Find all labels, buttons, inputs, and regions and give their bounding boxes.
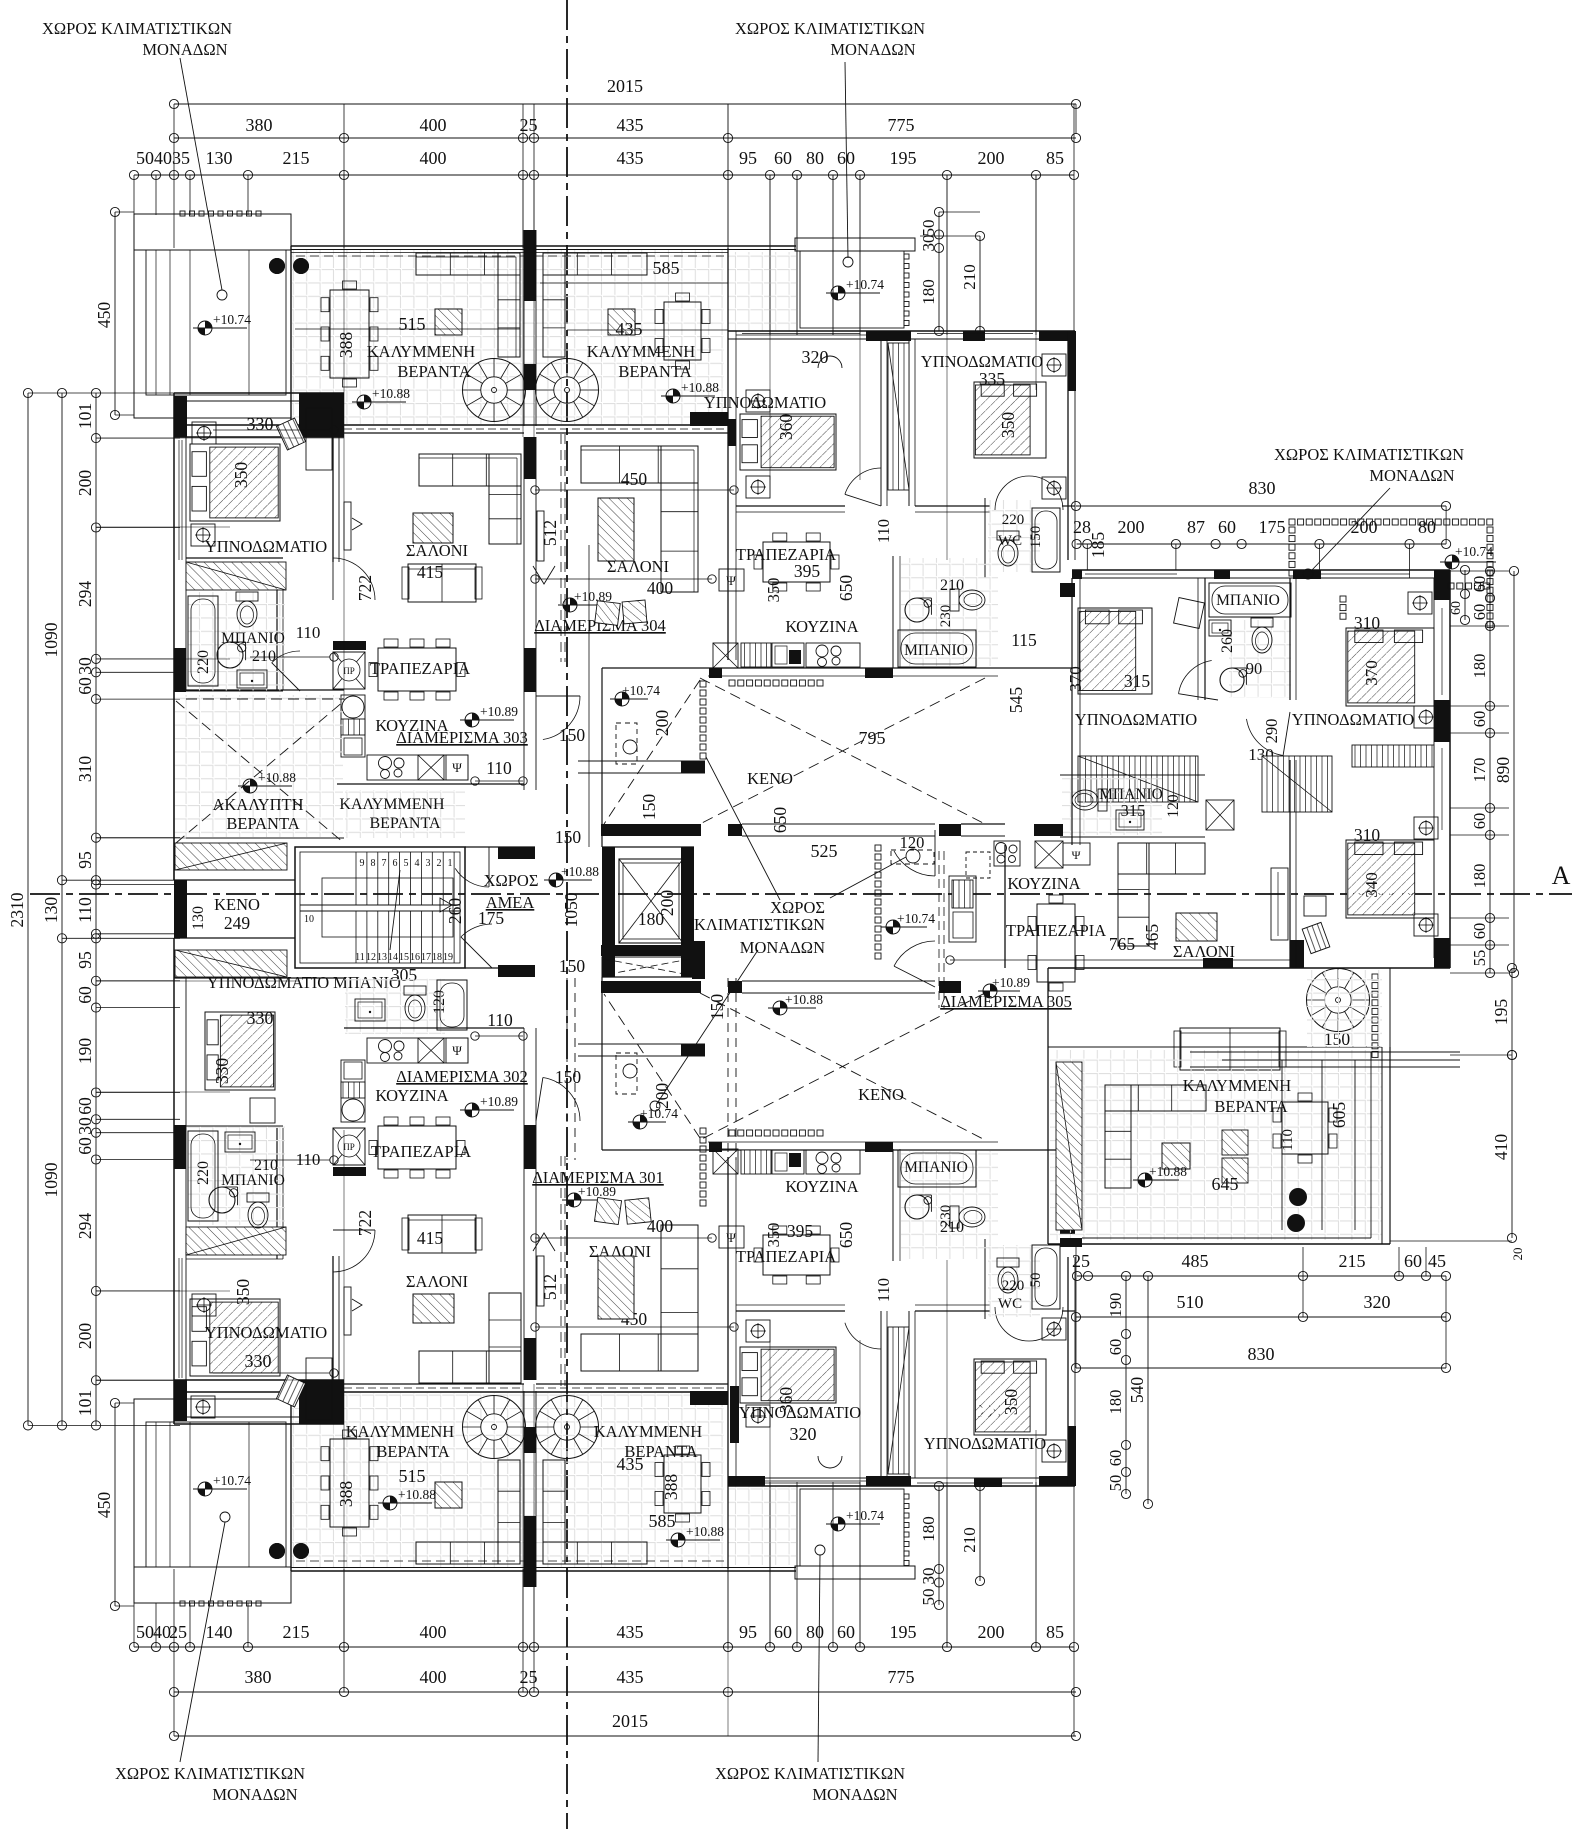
svg-text:110: 110 [486, 758, 512, 778]
AC dotted rect top-right [1289, 519, 1295, 525]
apt303 kitchen counter row [367, 755, 468, 780]
apt303 bedroom door [333, 558, 375, 600]
svg-text:2310: 2310 [7, 892, 27, 927]
svg-text:101: 101 [75, 403, 95, 429]
bottom veranda tiles [292, 1393, 724, 1567]
svg-text:30: 30 [75, 1117, 95, 1135]
svg-text:+10.88: +10.88 [686, 1524, 724, 1539]
svg-text:+10.89: +10.89 [480, 1094, 518, 1109]
svg-text:395: 395 [787, 1221, 814, 1241]
svg-text:ΥΠΝΟΔΩΜΑΤΙΟ: ΥΠΝΟΔΩΜΑΤΙΟ [704, 393, 826, 412]
elevator lobby walls [601, 668, 603, 847]
svg-text:350: 350 [998, 412, 1018, 439]
apt302 left wall window lines [178, 1258, 180, 1378]
svg-text:ΤΡΑΠΕΖΑΡΙΑ: ΤΡΑΠΕΖΑΡΙΑ [736, 1247, 836, 1266]
svg-text:35: 35 [172, 148, 190, 168]
apt302 top boundary (stair hatch) [174, 977, 344, 979]
svg-text:370: 370 [1362, 660, 1381, 686]
svg-text:210: 210 [254, 1157, 278, 1174]
keno left box [174, 880, 187, 938]
svg-text:ΚΑΛΥΜΜΕΝΗ: ΚΑΛΥΜΜΕΝΗ [346, 1422, 455, 1441]
apt303 saloni/hall wall [523, 437, 525, 790]
svg-text:200: 200 [978, 1622, 1005, 1642]
leader AC top-right [845, 62, 848, 258]
svg-text:605: 605 [1329, 1102, 1349, 1129]
svg-text:60: 60 [1470, 711, 1489, 728]
apt301 bedroom walls + wardrobe strip [880, 1311, 882, 1478]
svg-text:101: 101 [75, 1390, 95, 1416]
AC platform bottom-center [795, 1566, 915, 1579]
svg-text:Ψ: Ψ [726, 573, 736, 588]
wing kitchen/living boundary [1004, 845, 1006, 968]
svg-text:512: 512 [540, 520, 560, 546]
stairwell box [295, 847, 465, 968]
middle corridor door [894, 851, 935, 876]
svg-text:ΠΡ: ΠΡ [343, 666, 355, 676]
svg-text:ΥΠΝΟΔΩΜΑΤΙΟ: ΥΠΝΟΔΩΜΑΤΙΟ [739, 1403, 861, 1422]
svg-text:+10.74: +10.74 [1455, 544, 1493, 559]
svg-text:ΣΑΛΟΝΙ: ΣΑΛΟΝΙ [1173, 942, 1235, 961]
svg-text:85: 85 [1046, 1622, 1064, 1642]
apt302 bedroom2/bath wall [186, 1253, 283, 1255]
right edge extra chain [1464, 570, 1466, 620]
svg-text:30: 30 [919, 235, 938, 252]
svg-text:200: 200 [75, 470, 95, 497]
black dots top-left [269, 258, 285, 274]
top veranda inner dashed overhang [296, 255, 724, 257]
svg-text:380: 380 [245, 1667, 272, 1687]
svg-text:12: 12 [366, 952, 376, 963]
svg-text:150: 150 [559, 956, 586, 976]
wing dining [1037, 904, 1075, 982]
svg-text:ΧΩΡΟΣ ΚΛΙΜΑΤΙΣΤΙΚΩΝ: ΧΩΡΟΣ ΚΛΙΜΑΤΙΣΤΙΚΩΝ [115, 1764, 305, 1783]
wing veranda sofa big [1105, 1085, 1206, 1111]
hatch strip above stairs [175, 843, 287, 870]
AC platform bottom-left [134, 1399, 291, 1603]
svg-text:Ψ: Ψ [726, 1230, 736, 1245]
svg-text:150: 150 [555, 827, 582, 847]
svg-text:1090: 1090 [41, 622, 61, 657]
lower keno dashes vertical [727, 978, 729, 1160]
svg-text:ΧΩΡΟΣ ΚΛΙΜΑΤΙΣΤΙΚΩΝ: ΧΩΡΟΣ ΚΛΙΜΑΤΙΣΤΙΚΩΝ [735, 19, 925, 38]
svg-text:+10.88: +10.88 [398, 1487, 436, 1502]
svg-text:2: 2 [437, 858, 442, 869]
svg-text:515: 515 [399, 1466, 426, 1486]
svg-text:60: 60 [1106, 1450, 1125, 1467]
svg-text:ΣΑΛΟΝΙ: ΣΑΛΟΝΙ [406, 1272, 468, 1291]
svg-text:330: 330 [212, 1058, 232, 1085]
stair right wall chunks [498, 847, 535, 859]
svg-text:Α: Α [1552, 861, 1571, 890]
svg-text:220: 220 [195, 1161, 212, 1185]
apt301 kitchen [719, 1226, 744, 1248]
svg-text:180: 180 [1470, 864, 1489, 889]
wing veranda dots [1289, 1188, 1307, 1206]
svg-text:388: 388 [336, 332, 356, 359]
svg-text:ΔΙΑΜΕΡΙΣΜΑ 302: ΔΙΑΜΕΡΙΣΜΑ 302 [396, 1067, 528, 1086]
svg-text:150: 150 [559, 725, 586, 745]
svg-text:60: 60 [1470, 813, 1489, 830]
apt301 right wall [1067, 1257, 1069, 1486]
black dots redrawn over tiles [269, 258, 285, 274]
top veranda 2 dining table [664, 302, 701, 360]
svg-text:150: 150 [1028, 526, 1044, 549]
corridor partition below elevator [578, 1043, 705, 1045]
apt301 lightwell details [616, 1053, 637, 1094]
svg-text:+10.74: +10.74 [213, 312, 251, 327]
svg-text:ΧΩΡΟΣ ΚΛΙΜΑΤΙΣΤΙΚΩΝ: ΧΩΡΟΣ ΚΛΙΜΑΤΙΣΤΙΚΩΝ [42, 19, 232, 38]
top veranda small table [435, 309, 462, 335]
black chunks on veranda boundary [299, 393, 344, 437]
svg-text:388: 388 [336, 1481, 356, 1508]
apt303 bedroom right wall [332, 437, 334, 562]
svg-text:9: 9 [360, 858, 365, 869]
330 dim lines bedroom [213, 429, 330, 431]
apt303 desk + chair [306, 408, 332, 470]
svg-text:87: 87 [1187, 517, 1205, 537]
svg-text:140: 140 [206, 1622, 233, 1642]
apt304 arc top [818, 356, 842, 368]
svg-text:195: 195 [890, 148, 917, 168]
level +10.74 bottom-center [831, 1517, 845, 1531]
svg-text:180: 180 [919, 279, 938, 305]
svg-text:45: 45 [1428, 1251, 1446, 1271]
apt303 kalymmeni veranda small [345, 790, 465, 838]
svg-text:ΚΕΝΟ: ΚΕΝΟ [214, 895, 260, 914]
top extension lines [173, 104, 175, 248]
svg-text:230: 230 [938, 605, 954, 628]
top veranda tiles [292, 250, 724, 424]
svg-text:ΚΛΙΜΑΤΙΣΤΙΚΩΝ: ΚΛΙΜΑΤΙΣΤΙΚΩΝ [694, 915, 825, 934]
svg-text:1: 1 [448, 858, 453, 869]
svg-text:+10.88: +10.88 [258, 770, 296, 785]
svg-text:360: 360 [776, 1387, 796, 1414]
svg-text:60: 60 [75, 677, 95, 695]
svg-text:60: 60 [1449, 601, 1464, 615]
svg-text:ΜΠΑΝΙΟ: ΜΠΑΝΙΟ [904, 642, 968, 659]
apt302 trapezaria [378, 1126, 456, 1169]
svg-text:ΜΟΝΑΔΩΝ: ΜΟΝΑΔΩΝ [740, 938, 825, 957]
svg-text:330: 330 [245, 1351, 272, 1371]
svg-text:ΤΡΑΠΕΖΑΡΙΑ: ΤΡΑΠΕΖΑΡΙΑ [371, 1142, 471, 1161]
leader AC bottom-center [818, 1555, 820, 1762]
svg-text:60: 60 [1470, 923, 1489, 940]
horizontal grid partial [96, 437, 344, 439]
svg-text:290: 290 [1262, 719, 1281, 744]
svg-text:40: 40 [154, 148, 172, 168]
svg-text:200: 200 [657, 890, 677, 917]
svg-text:ΒΕΡΑΝΤΑ: ΒΕΡΑΝΤΑ [1214, 1097, 1287, 1116]
svg-text:60: 60 [1404, 1251, 1422, 1271]
bottom veranda fascia [291, 1570, 796, 1572]
elevator bottom band + dashed shaft [601, 945, 705, 956]
svg-text:415: 415 [417, 562, 444, 582]
leader line AC top-left [180, 58, 222, 290]
svg-text:220: 220 [1002, 512, 1025, 528]
amea doors [455, 868, 489, 887]
apt304 tv bar [537, 511, 544, 561]
svg-text:585: 585 [653, 258, 680, 278]
svg-text:350: 350 [1001, 1389, 1021, 1416]
bottom veranda sofa L [416, 1542, 520, 1564]
svg-text:388: 388 [661, 1474, 681, 1501]
stair mid landing rail [300, 904, 460, 906]
svg-text:ΚΑΛΥΜΜΕΝΗ: ΚΑΛΥΜΜΕΝΗ [339, 796, 445, 813]
level +10.74 top-right [831, 286, 845, 300]
svg-text:ΔΙΑΜΕΡΙΣΜΑ 303: ΔΙΑΜΕΡΙΣΜΑ 303 [396, 728, 528, 747]
svg-text:585: 585 [649, 1511, 676, 1531]
svg-text:ΥΠΝΟΔΩΜΑΤΙΟ: ΥΠΝΟΔΩΜΑΤΙΟ [205, 537, 327, 556]
svg-text:ΚΕΝΟ: ΚΕΝΟ [747, 769, 793, 788]
apt303 nightstands [192, 422, 216, 444]
svg-text:Ψ: Ψ [452, 760, 462, 775]
wing bath2 [1060, 774, 1205, 776]
apt301 wc [984, 1239, 986, 1319]
right wing top chain 830 [1076, 505, 1446, 507]
svg-text:ΚΟΥΖΙΝΑ: ΚΟΥΖΙΝΑ [1007, 874, 1080, 893]
svg-text:ΒΕΡΑΝΤΑ: ΒΕΡΑΝΤΑ [624, 1442, 697, 1461]
svg-text:ΜΟΝΑΔΩΝ: ΜΟΝΑΔΩΝ [812, 1785, 897, 1804]
svg-text:315: 315 [1121, 801, 1146, 820]
svg-text:435: 435 [617, 1622, 644, 1642]
svg-text:650: 650 [836, 575, 856, 602]
apt304 bath [892, 556, 894, 668]
apt302 bedroom1 [185, 978, 187, 1128]
svg-text:775: 775 [888, 1667, 915, 1687]
wing bath middle [1209, 583, 1291, 617]
svg-text:+10.74: +10.74 [213, 1473, 251, 1488]
svg-text:110: 110 [296, 623, 321, 642]
right wing bottom chains [1077, 1275, 1446, 1277]
svg-text:ΒΕΡΑΝΤΑ: ΒΕΡΑΝΤΑ [369, 815, 440, 832]
svg-text:60: 60 [1470, 604, 1489, 621]
svg-text:ΚΑΛΥΜΜΕΝΗ: ΚΑΛΥΜΜΕΝΗ [587, 342, 696, 361]
bottom-right mini chains [938, 1486, 940, 1605]
svg-text:190: 190 [1106, 1293, 1125, 1318]
svg-text:+10.89: +10.89 [480, 704, 518, 719]
left extension ticks [96, 392, 180, 394]
svg-text:95: 95 [739, 148, 757, 168]
svg-text:95: 95 [739, 1622, 757, 1642]
svg-text:450: 450 [94, 1492, 114, 1519]
svg-text:13: 13 [377, 952, 387, 963]
apt304 lightwell details [616, 723, 637, 764]
svg-text:200: 200 [75, 1323, 95, 1350]
apt302 DP shaft [333, 1128, 365, 1165]
apt301 bottom wall [728, 1485, 1075, 1487]
svg-text:80: 80 [806, 148, 824, 168]
svg-text:350: 350 [764, 578, 783, 603]
top veranda 2 sofa [543, 253, 647, 275]
black chunks on veranda boundary bottom [299, 1380, 344, 1424]
bottom veranda inner dashed overhang [296, 1560, 724, 1562]
top veranda outer rail lines [291, 252, 728, 254]
svg-text:50: 50 [136, 1622, 154, 1642]
apt301 bedroom1 [740, 1347, 836, 1403]
svg-text:50: 50 [1106, 1475, 1125, 1492]
svg-text:170: 170 [1470, 758, 1489, 783]
svg-text:ΜΟΝΑΔΩΝ: ΜΟΝΑΔΩΝ [1369, 466, 1454, 485]
apt303 bath bottom wall / veranda boundary [174, 689, 344, 691]
wing pillow deco [1174, 598, 1205, 629]
akalypti dashed X [176, 701, 344, 843]
svg-text:ΒΕΡΑΝΤΑ: ΒΕΡΑΝΤΑ [397, 362, 470, 381]
svg-text:8: 8 [371, 858, 376, 869]
svg-text:25: 25 [520, 115, 538, 135]
svg-text:210: 210 [960, 1527, 979, 1553]
wing corridor doors [1179, 661, 1212, 694]
bottom veranda small table [435, 1482, 462, 1508]
svg-text:340: 340 [1362, 872, 1381, 898]
svg-text:150: 150 [555, 1067, 582, 1087]
svg-text:645: 645 [1212, 1174, 1239, 1194]
apt304 right wall [1067, 331, 1069, 560]
apt303 akalypti veranda [175, 695, 343, 837]
svg-text:180: 180 [1106, 1390, 1125, 1415]
svg-text:200: 200 [652, 710, 672, 737]
svg-text:60: 60 [774, 1622, 792, 1642]
svg-text:400: 400 [420, 1667, 447, 1687]
svg-text:795: 795 [859, 728, 886, 748]
apt302 kitchen counter row [367, 1038, 468, 1063]
apt303 left wall black chunk [174, 648, 186, 692]
amea corridor dashes [566, 978, 568, 1160]
svg-text:14: 14 [388, 952, 398, 963]
svg-text:722: 722 [355, 575, 375, 601]
svg-text:ΥΠΝΟΔΩΜΑΤΙΟ: ΥΠΝΟΔΩΜΑΤΙΟ [924, 1434, 1046, 1453]
leader line AC bottom-left [180, 1522, 225, 1762]
svg-text:765: 765 [1109, 934, 1136, 954]
apt303 bath wardrobe strip [186, 562, 286, 590]
svg-text:722: 722 [355, 1210, 375, 1236]
svg-text:60: 60 [75, 986, 95, 1004]
bottom veranda dining table L [330, 1439, 369, 1527]
keno leaders [706, 757, 780, 900]
svg-text:ΜΠΑΝΙΟ: ΜΠΑΝΙΟ [1216, 592, 1280, 609]
apt303 left wall window lines [178, 440, 180, 560]
apt303 DP shaft [333, 652, 365, 689]
svg-text:90: 90 [1246, 659, 1263, 678]
svg-text:150: 150 [707, 994, 727, 1021]
apt302 bath wardrobe strip [186, 1227, 286, 1255]
apt304 pillows [595, 601, 621, 626]
wing bath/bedroomB wall [1289, 578, 1291, 700]
svg-text:ΤΡΑΠΕΖΑΡΙΑ: ΤΡΑΠΕΖΑΡΙΑ [736, 545, 836, 564]
right wing chain row [1077, 543, 1447, 545]
right wing right chains [1489, 571, 1491, 973]
apt304 bedroom doors [845, 468, 881, 494]
apt302 outer walls [174, 1423, 344, 1425]
svg-text:370: 370 [1066, 666, 1085, 692]
svg-text:435: 435 [617, 148, 644, 168]
top veranda sofa L [416, 253, 520, 275]
svg-text:ΚΑΛΥΜΜΕΝΗ: ΚΑΛΥΜΜΕΝΗ [594, 1422, 703, 1441]
svg-text:195: 195 [1491, 999, 1511, 1026]
apt304 bedroom1 [740, 414, 836, 470]
svg-text:ΣΑΛΟΝΙ: ΣΑΛΟΝΙ [406, 541, 468, 560]
svg-text:512: 512 [540, 1274, 560, 1300]
spiral stair bottom-left [463, 1396, 526, 1459]
svg-text:360: 360 [776, 414, 796, 441]
svg-text:ΤΡΑΠΕΖΑΡΙΑ: ΤΡΑΠΕΖΑΡΙΑ [370, 659, 470, 678]
svg-text:830: 830 [1249, 478, 1276, 498]
svg-text:400: 400 [420, 115, 447, 135]
svg-text:60: 60 [1106, 1339, 1125, 1356]
svg-text:15: 15 [399, 952, 409, 963]
top dimension chain 2015 [174, 103, 1076, 105]
svg-text:+10.89: +10.89 [992, 975, 1030, 990]
svg-text:+10.74: +10.74 [846, 277, 884, 292]
spiral stair wing [1307, 969, 1370, 1032]
svg-text:650: 650 [836, 1222, 856, 1249]
veranda/apartment boundary wall bottom [174, 1391, 728, 1393]
svg-text:4: 4 [415, 858, 420, 869]
svg-text:30: 30 [919, 1568, 938, 1585]
svg-text:80: 80 [806, 1622, 824, 1642]
top dimension chain row C [134, 174, 1074, 176]
svg-text:ΒΕΡΑΝΤΑ: ΒΕΡΑΝΤΑ [226, 814, 299, 833]
wing veranda left hatch strip [1056, 1062, 1082, 1230]
svg-text:215: 215 [283, 148, 310, 168]
upper keno [602, 667, 1072, 669]
wing veranda tiles [1050, 1050, 1382, 1240]
svg-text:ΜΠΑΝΙΟ: ΜΠΑΝΙΟ [221, 630, 285, 647]
wing top wall [1072, 569, 1450, 571]
svg-text:19: 19 [443, 952, 453, 963]
apt302 bedroom2 bed [190, 1299, 280, 1376]
svg-text:775: 775 [888, 115, 915, 135]
stair direction line [390, 870, 400, 950]
elevator shaft [602, 847, 615, 977]
svg-text:215: 215 [1339, 1251, 1366, 1271]
svg-text:ΚΟΥΖΙΝΑ: ΚΟΥΖΙΝΑ [785, 1177, 858, 1196]
apt302 upper bath fixtures [345, 978, 445, 1034]
wing left wall to core [1071, 578, 1073, 845]
svg-text:50: 50 [136, 148, 154, 168]
centerline horizontal section A-A [30, 893, 1572, 895]
apt301 left wall [727, 1157, 729, 1569]
veranda/apartment boundary wall top [174, 424, 728, 426]
svg-text:+10.88: +10.88 [561, 864, 599, 879]
svg-text:180: 180 [1470, 654, 1489, 679]
svg-text:380: 380 [246, 115, 273, 135]
svg-text:ΚΟΥΖΙΝΑ: ΚΟΥΖΙΝΑ [785, 617, 858, 636]
svg-text:60: 60 [75, 1097, 95, 1115]
svg-text:350: 350 [231, 462, 251, 489]
svg-text:185: 185 [1088, 532, 1108, 559]
centerline vertical [566, 0, 568, 1829]
svg-text:50: 50 [1028, 1273, 1044, 1288]
bottom veranda 2 sofa [543, 1542, 647, 1564]
svg-text:310: 310 [1354, 825, 1381, 845]
svg-text:16: 16 [410, 952, 420, 963]
svg-text:294: 294 [75, 1213, 95, 1240]
svg-text:60: 60 [837, 1622, 855, 1642]
svg-text:95: 95 [75, 851, 95, 869]
svg-text:2015: 2015 [612, 1711, 648, 1731]
black dots redrawn over tiles (bottom) [269, 1543, 285, 1559]
tiles near wing spiral [1307, 970, 1382, 1047]
wing veranda border [1047, 968, 1049, 1244]
lower keno [602, 1149, 1072, 1151]
svg-text:95: 95 [75, 951, 95, 969]
svg-text:130: 130 [190, 906, 207, 930]
svg-text:330: 330 [247, 414, 274, 434]
wing AC dotted strip vertical [1372, 974, 1378, 980]
svg-text:210: 210 [940, 577, 964, 594]
svg-text:ΜΟΝΑΔΩΝ: ΜΟΝΑΔΩΝ [212, 1785, 297, 1804]
svg-text:415: 415 [417, 1228, 444, 1248]
